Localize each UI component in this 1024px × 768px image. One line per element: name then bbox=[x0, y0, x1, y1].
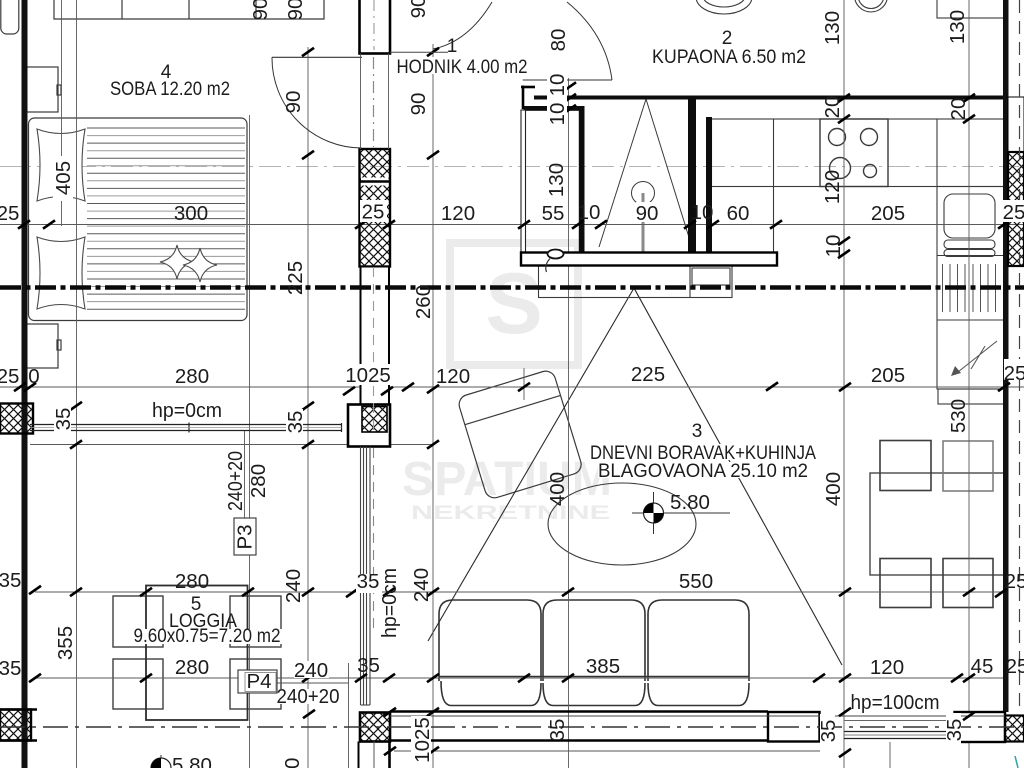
bed star decor bbox=[160, 245, 194, 279]
svg-text:25: 25 bbox=[1005, 570, 1024, 593]
P3 leader bbox=[244, 431, 246, 518]
washbasin counter bbox=[539, 266, 733, 298]
fridge vent lines bbox=[943, 264, 996, 312]
pillar centerline bbox=[373, 0, 375, 50]
svg-text:5.80: 5.80 bbox=[670, 491, 710, 514]
svg-text:280: 280 bbox=[247, 464, 270, 498]
toilet bbox=[696, 0, 752, 14]
hodnik door dashed leaf bbox=[373, 57, 375, 147]
svg-text:90: 90 bbox=[636, 202, 659, 225]
P4 label box bbox=[238, 670, 277, 693]
lower parapet line bbox=[394, 750, 820, 752]
svg-text:205: 205 bbox=[871, 202, 905, 225]
shower right wall bbox=[688, 97, 696, 253]
svg-text:hp=0cm: hp=0cm bbox=[378, 568, 401, 638]
svg-text:120: 120 bbox=[436, 365, 470, 388]
svg-text:10: 10 bbox=[546, 103, 569, 126]
text halos bbox=[360, 200, 387, 222]
dining table bbox=[870, 473, 1005, 575]
entry door arc bbox=[433, 2, 492, 49]
main centerline thick bbox=[0, 285, 1024, 290]
svg-text:280: 280 bbox=[175, 365, 209, 388]
hodnik leader 1 bbox=[390, 51, 448, 53]
bathroom entry L-jamb bbox=[521, 86, 535, 89]
svg-text:530: 530 bbox=[947, 399, 970, 433]
hodnik door opening faces bbox=[360, 54, 362, 150]
svg-text:S: S bbox=[485, 256, 542, 352]
svg-text:120: 120 bbox=[870, 656, 904, 679]
svg-text:10: 10 bbox=[281, 758, 304, 768]
svg-text:550: 550 bbox=[679, 570, 713, 593]
bottom wall band under living room bbox=[390, 712, 768, 741]
bathroom door leaf bbox=[523, 79, 612, 81]
svg-text:5.80: 5.80 bbox=[172, 754, 212, 768]
svg-text:90: 90 bbox=[284, 0, 307, 20]
svg-text:35: 35 bbox=[817, 720, 840, 743]
svg-text:240+20: 240+20 bbox=[277, 685, 340, 708]
left wall hatch block lower bbox=[0, 710, 37, 741]
svg-text:280: 280 bbox=[175, 570, 209, 593]
loggia chairs bbox=[113, 596, 281, 709]
svg-text:P3: P3 bbox=[234, 524, 257, 549]
soba door leaf bbox=[272, 56, 362, 58]
svg-text:20: 20 bbox=[947, 98, 970, 121]
svg-text:KUPAONA 6.50 m2: KUPAONA 6.50 m2 bbox=[652, 47, 806, 68]
svg-text:205: 205 bbox=[871, 364, 905, 387]
dishwasher zigzag bbox=[958, 341, 997, 372]
right exterior wall bbox=[1003, 0, 1009, 712]
svg-text:25: 25 bbox=[1004, 362, 1024, 385]
left wall hatch block upper bbox=[0, 404, 33, 434]
svg-text:10: 10 bbox=[546, 74, 569, 97]
svg-text:25: 25 bbox=[0, 365, 19, 388]
loggia glass door bbox=[361, 447, 371, 706]
svg-text:3: 3 bbox=[692, 421, 703, 442]
svg-text:hp=100cm: hp=100cm bbox=[851, 691, 940, 714]
bed stripes bbox=[87, 128, 245, 309]
svg-text:hp=0cm: hp=0cm bbox=[152, 399, 222, 422]
svg-text:SOBA 12.20 m2: SOBA 12.20 m2 bbox=[110, 79, 230, 100]
svg-text:35: 35 bbox=[0, 569, 21, 592]
svg-text:NEKRETNINE: NEKRETNINE bbox=[411, 503, 610, 524]
teal mark bottom right bbox=[1015, 756, 1018, 768]
svg-text:355: 355 bbox=[54, 626, 77, 660]
svg-text:55: 55 bbox=[542, 202, 565, 225]
round table ellipse bbox=[548, 483, 696, 565]
svg-text:25: 25 bbox=[362, 201, 385, 224]
wall segment below hatch A bbox=[361, 267, 390, 405]
svg-text:9.60x0.75=7.20 m2: 9.60x0.75=7.20 m2 bbox=[134, 626, 281, 647]
svg-text:0: 0 bbox=[28, 365, 39, 388]
svg-text:35: 35 bbox=[52, 408, 75, 431]
view triangle lines bbox=[428, 288, 634, 641]
loggia door dashed leaf bbox=[373, 267, 375, 430]
svg-text:1025: 1025 bbox=[411, 717, 434, 763]
svg-text:80: 80 bbox=[547, 29, 570, 52]
bathroom top wall bbox=[534, 96, 1004, 100]
svg-text:260: 260 bbox=[412, 285, 435, 319]
dimension chain lines bbox=[0, 225, 1024, 679]
svg-text:240: 240 bbox=[294, 659, 328, 682]
left exterior wall bbox=[22, 0, 28, 768]
bathroom lower step bar bbox=[524, 106, 585, 111]
right wall hatch block bbox=[1008, 152, 1024, 266]
svg-text:385: 385 bbox=[586, 655, 620, 678]
hp100 window bbox=[844, 721, 958, 739]
armchair bbox=[457, 369, 584, 501]
svg-text:130: 130 bbox=[946, 10, 969, 44]
svg-text:90: 90 bbox=[407, 0, 430, 18]
bathroom left wall bbox=[521, 110, 526, 253]
svg-text:1025: 1025 bbox=[345, 364, 391, 387]
svg-text:90: 90 bbox=[407, 93, 430, 116]
svg-text:2: 2 bbox=[722, 28, 733, 49]
svg-text:60: 60 bbox=[727, 202, 750, 225]
svg-text:25: 25 bbox=[0, 202, 19, 225]
pillow 1 bbox=[37, 129, 85, 201]
kitchen counter top bbox=[712, 119, 1005, 252]
washing machine top right bbox=[937, 0, 1004, 18]
svg-text:300: 300 bbox=[174, 202, 208, 225]
svg-text:130: 130 bbox=[545, 163, 568, 197]
svg-text:25: 25 bbox=[1003, 201, 1024, 224]
loggia window parapet hp=0 bbox=[30, 423, 342, 433]
wash sink circle bbox=[855, 0, 888, 12]
shower left wall bbox=[579, 106, 585, 253]
svg-text:240: 240 bbox=[410, 568, 433, 602]
svg-text:35: 35 bbox=[357, 570, 380, 593]
loggia table bbox=[146, 586, 248, 721]
pillow 2 bbox=[37, 237, 85, 309]
niche wall bbox=[706, 117, 712, 253]
hodnik wall pillar above door bbox=[360, 0, 391, 54]
wall hatch column A bbox=[360, 149, 391, 267]
svg-text:10: 10 bbox=[822, 235, 845, 258]
svg-text:240+20: 240+20 bbox=[224, 451, 247, 511]
svg-text:120: 120 bbox=[441, 202, 475, 225]
wardrobe closet bbox=[54, 0, 324, 19]
watermark logo square bbox=[450, 243, 578, 365]
soba door arc bbox=[272, 57, 362, 148]
svg-text:225: 225 bbox=[284, 261, 307, 295]
bathroom bottom wall bbox=[521, 253, 777, 266]
svg-text:35: 35 bbox=[943, 719, 966, 742]
axis centerline light bbox=[0, 166, 1019, 168]
svg-text:400: 400 bbox=[822, 472, 845, 506]
svg-text:400: 400 bbox=[546, 472, 569, 506]
svg-text:BLAGOVAONA 25.10 m2: BLAGOVAONA 25.10 m2 bbox=[598, 461, 808, 482]
bottom center hatch block bbox=[359, 713, 391, 768]
svg-text:405: 405 bbox=[52, 161, 75, 195]
wall box with hatch B bbox=[348, 405, 390, 447]
door handle oval bbox=[548, 250, 564, 259]
nightstand 1 bbox=[25, 67, 61, 112]
svg-text:35: 35 bbox=[284, 411, 307, 434]
svg-text:225: 225 bbox=[631, 363, 665, 386]
radiator top-left bbox=[1, 0, 19, 34]
svg-text:280: 280 bbox=[175, 656, 209, 679]
svg-text:20: 20 bbox=[821, 96, 844, 119]
bed bbox=[29, 118, 248, 321]
stove bbox=[820, 119, 888, 187]
height symbol living bbox=[632, 492, 730, 534]
kitchen right column bbox=[937, 187, 1004, 405]
svg-text:HODNIK 4.00 m2: HODNIK 4.00 m2 bbox=[397, 57, 528, 78]
svg-text:10: 10 bbox=[578, 201, 601, 224]
right wall white box bbox=[1008, 97, 1024, 152]
svg-text:90: 90 bbox=[249, 0, 272, 20]
P3 label box bbox=[234, 518, 256, 555]
svg-text:45: 45 bbox=[971, 655, 994, 678]
svg-text:35: 35 bbox=[546, 719, 569, 742]
svg-text:120: 120 bbox=[821, 170, 844, 204]
svg-text:1: 1 bbox=[447, 36, 458, 57]
svg-text:P4: P4 bbox=[246, 670, 271, 693]
bathroom door arc bbox=[567, 2, 612, 80]
bottom right blocks bbox=[768, 712, 820, 742]
svg-text:130: 130 bbox=[821, 11, 844, 45]
bottom centerline bbox=[0, 726, 1024, 728]
height symbol loggia bbox=[151, 755, 171, 768]
sofa bbox=[439, 600, 749, 706]
svg-text:35: 35 bbox=[357, 654, 380, 677]
dining chairs bbox=[880, 441, 931, 491]
shower triangle bbox=[599, 99, 692, 252]
svg-text:10: 10 bbox=[691, 201, 714, 224]
svg-text:25: 25 bbox=[1006, 655, 1024, 678]
svg-text:240: 240 bbox=[282, 569, 305, 603]
svg-text:35: 35 bbox=[0, 657, 21, 680]
right dashed line bbox=[1019, 0, 1021, 712]
svg-text:90: 90 bbox=[282, 91, 305, 114]
nightstand 2 bbox=[25, 324, 61, 368]
